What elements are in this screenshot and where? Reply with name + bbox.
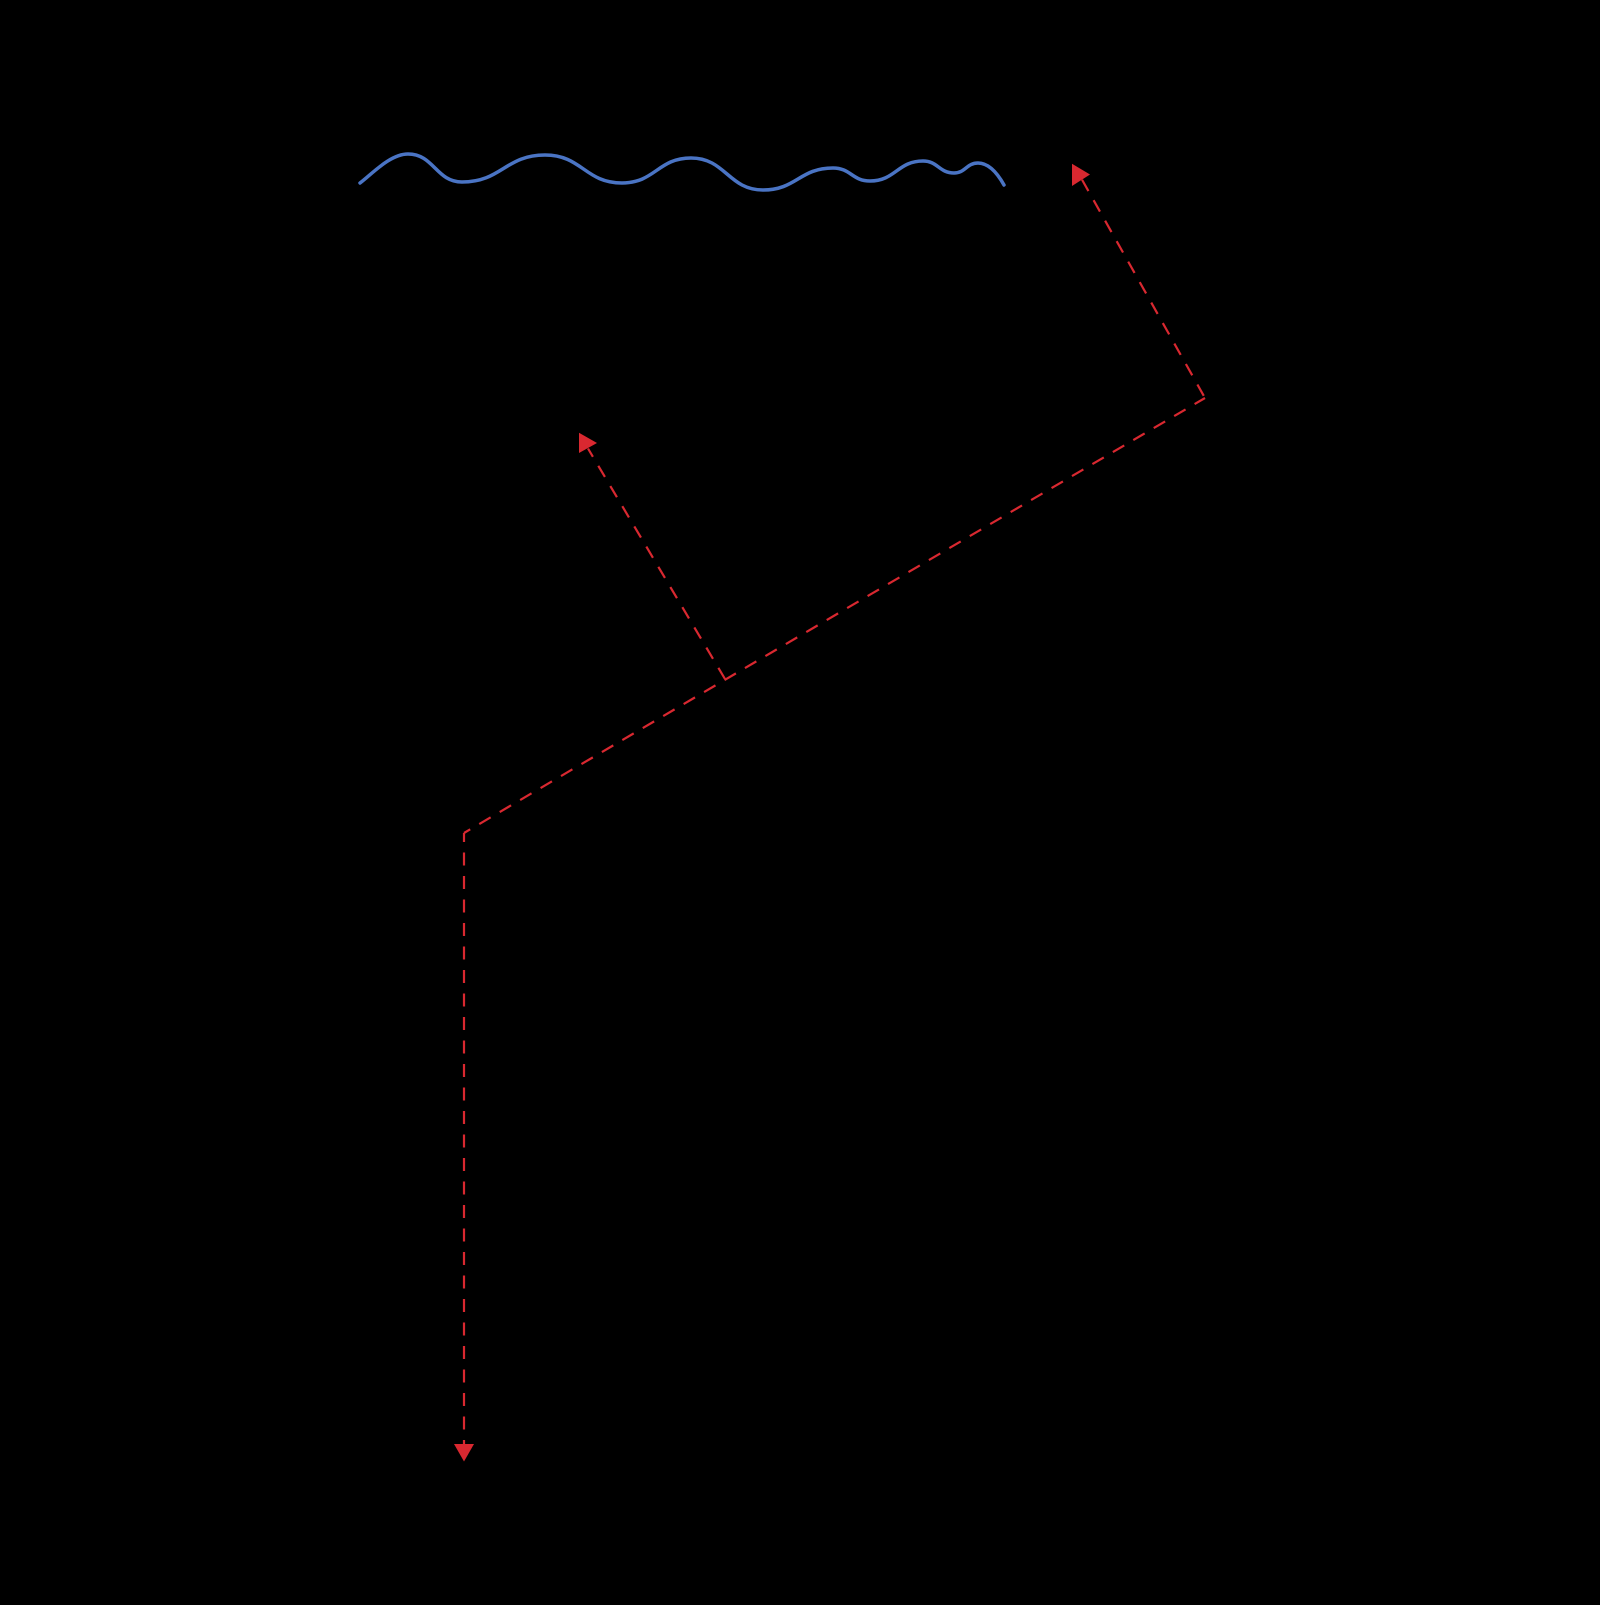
wire: main diagonal dashed ray: [464, 398, 1205, 833]
wire: upper-right dashed ray to surface: [1076, 169, 1205, 398]
arrowhead bottom (down): [454, 1444, 474, 1462]
water surface wavy line: [360, 154, 1004, 190]
wire: vertical dashed ray: [463, 833, 465, 1447]
arrowhead middle: [579, 433, 597, 453]
wire: branch dashed ray: [588, 449, 725, 680]
arrowhead upper-right: [1072, 164, 1090, 186]
